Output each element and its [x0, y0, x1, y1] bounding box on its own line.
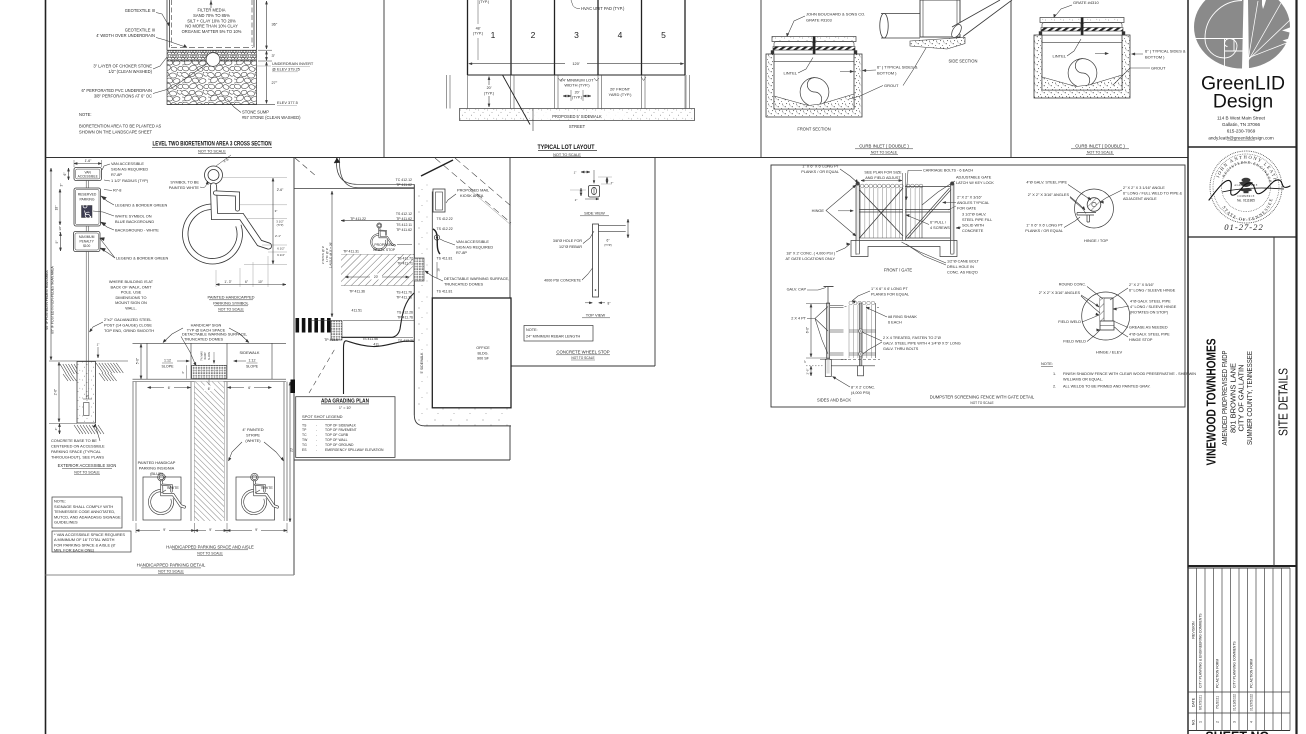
svg-text:TOP OF GROUND: TOP OF GROUND	[325, 443, 354, 447]
hinge elev detail	[1082, 292, 1130, 340]
dashed property diagonals	[295, 158, 316, 176]
svg-text:2" X 2" X 3/16": 2" X 2" X 3/16"	[957, 196, 983, 200]
svg-text:1'- 3": 1'- 3"	[224, 280, 231, 284]
svg-text:FOR GATE: FOR GATE	[957, 207, 977, 211]
lower stall lines left	[310, 320, 331, 322]
svg-text:4"Ø GALV. STEEL PIPE: 4"Ø GALV. STEEL PIPE	[1129, 333, 1170, 337]
18 dim right of walk	[436, 262, 438, 278]
corner blocks	[1039, 32, 1042, 36]
svg-text:01/13/2022: 01/13/2022	[1233, 694, 1237, 711]
svg-text:TYPICAL LOT LAYOUT: TYPICAL LOT LAYOUT	[538, 145, 595, 151]
svg-text:ES: ES	[302, 448, 307, 452]
sidewalk band vertical	[414, 184, 432, 425]
svg-text:ANGLES TYPICAL: ANGLES TYPICAL	[957, 201, 989, 205]
svg-text:7% MAX: 7% MAX	[201, 351, 204, 361]
parking plan edge lines	[133, 378, 287, 380]
svg-text:TENNESSEE CODE ANNOTATED,: TENNESSEE CODE ANNOTATED,	[54, 509, 115, 514]
svg-text:HANDICAPPED PARKING SPACE AND: HANDICAPPED PARKING SPACE AND AISLE	[166, 545, 254, 550]
project box bottom line	[1188, 565, 1297, 567]
svg-text:2: 2	[531, 30, 536, 40]
svg-text:OFFICE: OFFICE	[476, 346, 490, 350]
svg-text:TOP END, GRIND SMOOTH: TOP END, GRIND SMOOTH	[104, 328, 154, 333]
svg-text:NOT TO SCALE: NOT TO SCALE	[1087, 151, 1114, 155]
svg-text:SYMBOL TO BE: SYMBOL TO BE	[170, 180, 199, 185]
svg-text:20' FRONT: 20' FRONT	[610, 87, 631, 92]
svg-text:3": 3"	[181, 371, 185, 374]
svg-text:01-27-22: 01-27-22	[1224, 222, 1264, 232]
svg-text:WILLIAMS OR EQUAL.: WILLIAMS OR EQUAL.	[1063, 378, 1103, 382]
svg-text:GRATE #3103: GRATE #3103	[806, 18, 832, 23]
svg-text:CARRIAGE BOLTS - 6 EACH: CARRIAGE BOLTS - 6 EACH	[923, 169, 973, 173]
parking cross-section	[133, 342, 287, 344]
svg-text:6" PERFORATED PVC UNDERDRAIN: 6" PERFORATED PVC UNDERDRAIN	[81, 88, 152, 93]
svg-text:WIDTH (TYP.): WIDTH (TYP.)	[564, 83, 590, 88]
svg-text:NOT TO SCALE: NOT TO SCALE	[553, 153, 581, 157]
svg-text:R7-8: R7-8	[113, 188, 121, 193]
svg-text:PROPOSED: PROPOSED	[374, 243, 394, 247]
svg-text:NOT TO SCALE: NOT TO SCALE	[74, 471, 100, 475]
svg-text:01/27/2022: 01/27/2022	[1250, 694, 1254, 711]
svg-text:114 B West Main Street: 114 B West Main Street	[1217, 116, 1266, 121]
svg-text:2"x2" GALVANIZED STEEL: 2"x2" GALVANIZED STEEL	[104, 317, 152, 322]
svg-text:5' SIDEWALK: 5' SIDEWALK	[420, 352, 424, 374]
svg-text:1 1/2" RADIUS (TYP): 1 1/2" RADIUS (TYP)	[111, 178, 149, 183]
grate humps	[1042, 23, 1081, 28]
svg-text:6': 6'	[168, 386, 171, 390]
lintel line	[774, 60, 854, 62]
svg-text:4" PAINTED: 4" PAINTED	[242, 427, 263, 432]
svg-text:CONCRETE: CONCRETE	[962, 229, 984, 233]
svg-text:6" PULL /: 6" PULL /	[930, 221, 947, 225]
svg-text:4"Ø GALV. STEEL PIPE: 4"Ø GALV. STEEL PIPE	[1130, 300, 1171, 304]
svg-text:SEE PLAN FOR SIZE: SEE PLAN FOR SIZE	[864, 171, 902, 175]
svg-text:EMERGENCY SPILLWAY ELEVATION: EMERGENCY SPILLWAY ELEVATION	[325, 448, 384, 452]
dome pad at crossing	[331, 321, 342, 341]
svg-text:andy.leath@greenliddesign.com: andy.leath@greenliddesign.com	[1208, 136, 1274, 141]
svg-text:6": 6"	[63, 173, 67, 176]
20ft depth dim	[488, 77, 490, 108]
left dim 36ft	[331, 191, 333, 317]
svg-text:TOP VIEW: TOP VIEW	[586, 313, 606, 318]
svg-text:PAINTED HANDICAP: PAINTED HANDICAP	[138, 460, 176, 465]
svg-text:GROUT: GROUT	[884, 83, 899, 88]
svg-text:TP 411.36: TP 411.36	[349, 290, 365, 294]
symbol right dims	[222, 177, 287, 179]
parking stall lines	[341, 220, 414, 222]
svg-text:TS: TS	[302, 423, 307, 427]
svg-text:WHITE: WHITE	[261, 486, 273, 490]
svg-text:1:12: 1:12	[164, 359, 171, 363]
svg-text:411: 411	[373, 343, 379, 347]
svg-text:ORGANIC MATTER 5% TO 10%: ORGANIC MATTER 5% TO 10%	[182, 29, 242, 34]
svg-text:TP 411.62: TP 411.62	[396, 217, 412, 221]
svg-text:PARKING SYMBOL: PARKING SYMBOL	[213, 301, 249, 306]
svg-text:TC 412.12: TC 412.12	[396, 178, 412, 182]
svg-text:NOTE:: NOTE:	[79, 112, 92, 117]
svg-text:(TYP): (TYP)	[604, 243, 612, 247]
left post footing shaft	[825, 360, 831, 377]
svg-text:8": 8"	[608, 301, 611, 305]
svg-text:$100: $100	[83, 244, 90, 248]
svg-text:CENTERED ON ACCESSIBLE: CENTERED ON ACCESSIBLE	[51, 444, 105, 449]
media box bottom line	[167, 49, 257, 51]
svg-text:(BLUE): (BLUE)	[150, 471, 163, 476]
ADA plan box right edge	[509, 158, 511, 461]
svg-text:NOT TO SCALE: NOT TO SCALE	[970, 401, 993, 405]
sheet left border line	[45, 0, 47, 734]
svg-text:NOT TO SCALE: NOT TO SCALE	[871, 151, 898, 155]
revision table	[1188, 567, 1290, 569]
perforated pvc underdrain circle	[206, 53, 220, 67]
svg-text:STEEL PIPE FILL: STEEL PIPE FILL	[962, 218, 992, 222]
svg-text:6": 6"	[803, 360, 807, 363]
dimension 3in	[266, 51, 268, 61]
svg-text:WHEEL STOP: WHEEL STOP	[373, 248, 396, 252]
svg-text:JOHN BOUCHARD & SONS CO.: JOHN BOUCHARD & SONS CO.	[806, 12, 865, 17]
right gate planks	[906, 184, 910, 188]
svg-text:BLUE BACKGROUND: BLUE BACKGROUND	[115, 219, 154, 224]
svg-text:1.: 1.	[1053, 372, 1056, 376]
svg-text:TS 412.22: TS 412.22	[437, 217, 453, 221]
filter media box walls	[166, 0, 168, 50]
ground line	[49, 360, 128, 362]
svg-text:TP 411.5: TP 411.5	[324, 338, 338, 342]
svg-text:3" LAYER OF CHOKER STONE: 3" LAYER OF CHOKER STONE	[93, 64, 152, 69]
svg-text:CURB INLET ( DOUBLE ): CURB INLET ( DOUBLE )	[859, 144, 909, 149]
svg-text:NOT TO SCALE: NOT TO SCALE	[198, 150, 226, 154]
grade break wavy line	[344, 341, 415, 394]
grate hatched band	[1041, 28, 1123, 32]
street centerline tick	[532, 109, 534, 132]
svg-text:VAN ACCESSIBLE: VAN ACCESSIBLE	[456, 239, 489, 244]
curb top strip	[772, 37, 856, 42]
svg-text:POST (14 GAUGE) CLOSE: POST (14 GAUGE) CLOSE	[104, 323, 152, 328]
svg-text:2.: 2.	[1053, 385, 1056, 389]
choker stone band	[167, 51, 257, 62]
svg-text:REVISION: REVISION	[1192, 621, 1196, 639]
svg-text:1: 1	[1199, 721, 1203, 723]
svg-text:(TYP.): (TYP.)	[479, 0, 489, 4]
sign post	[85, 181, 87, 189]
svg-text:(4,000 PSI): (4,000 PSI)	[851, 391, 871, 395]
grate humps	[774, 42, 813, 47]
aisle hatch	[195, 382, 224, 521]
svg-text:6" ( TYPICAL SIDES &: 6" ( TYPICAL SIDES &	[1145, 49, 1186, 54]
svg-text:ACCESSIBLE: ACCESSIBLE	[78, 175, 98, 179]
svg-text:20': 20'	[487, 86, 492, 90]
svg-text:CURB INLET ( DOUBLE ): CURB INLET ( DOUBLE )	[1075, 144, 1125, 149]
svg-text:3": 3"	[272, 53, 276, 58]
van accessible sign	[74, 168, 102, 181]
svg-text:TP 411.76: TP 411.76	[396, 296, 412, 300]
svg-text:PARKING INSIGNIA: PARKING INSIGNIA	[139, 465, 175, 470]
svg-text:SIDE SECTION: SIDE SECTION	[949, 59, 978, 64]
lower dashed diagonal	[309, 347, 336, 393]
svg-text:FILTER MEDIA: FILTER MEDIA	[198, 8, 226, 13]
svg-text:1" X 6" X 6' LONG PT: 1" X 6" X 6' LONG PT	[802, 165, 839, 169]
svg-text:BLDG.: BLDG.	[477, 351, 488, 355]
svg-text:MOUNT SIGN ON: MOUNT SIGN ON	[115, 300, 147, 305]
svg-text:18: 18	[437, 268, 441, 272]
svg-text:7/1/2021: 7/1/2021	[1216, 696, 1220, 709]
GreenLID Design logo	[1194, 0, 1290, 69]
svg-text:NOTE:: NOTE:	[1041, 361, 1053, 366]
svg-text:2" X 2" X 3/16" ANGLES: 2" X 2" X 3/16" ANGLES	[1039, 291, 1081, 295]
svg-text:Design: Design	[1213, 91, 1273, 113]
svg-text:DIMENSIONS TO: DIMENSIONS TO	[116, 295, 147, 300]
6ft dims	[148, 387, 191, 389]
tall mounting dim	[50, 168, 52, 360]
svg-text:DETACTABLE WARNING SURFACE,: DETACTABLE WARNING SURFACE,	[444, 276, 509, 281]
svg-text:(WHITE): (WHITE)	[245, 438, 261, 443]
svg-text:GALV. THRU BOLTS: GALV. THRU BOLTS	[883, 347, 919, 351]
svg-text:6/17/2021: 6/17/2021	[1199, 695, 1203, 710]
svg-text:2" X 2" X 3/16" ANGLES: 2" X 2" X 3/16" ANGLES	[1028, 193, 1070, 197]
top cut dimension arrow	[210, 0, 212, 8]
svg-text:3": 3"	[275, 209, 278, 213]
svg-text:FIELD WELD: FIELD WELD	[1058, 320, 1081, 324]
svg-text:CONC. AS REQ'D: CONC. AS REQ'D	[947, 271, 978, 275]
svg-text:1" X 6" X 6' LONG PT: 1" X 6" X 6' LONG PT	[1026, 224, 1063, 228]
svg-text:SUMNER COUNTY, TENNESSEE: SUMNER COUNTY, TENNESSEE	[1245, 351, 1254, 445]
svg-text:10": 10"	[258, 280, 263, 284]
gap dashes	[845, 306, 849, 308]
pipe circle hatched	[1087, 198, 1101, 212]
svg-text:VINEWOOD TOWNHOMES: VINEWOOD TOWNHOMES	[1204, 338, 1219, 465]
grate seat strip	[773, 50, 855, 54]
svg-text:-: -	[316, 428, 317, 432]
svg-text:MIN. FOR EACH ONE): MIN. FOR EACH ONE)	[54, 548, 95, 553]
divider bioretention/lot layout	[383, 0, 385, 158]
svg-text:TP 411.62: TP 411.62	[396, 228, 412, 232]
post into concrete	[85, 361, 87, 399]
svg-text:HINGE STOP: HINGE STOP	[1129, 338, 1153, 342]
svg-text:TP 411.76: TP 411.76	[397, 316, 413, 320]
hinge arrow zigzag	[826, 185, 856, 236]
svg-text:SPOT SHOT LEGEND: SPOT SHOT LEGEND	[302, 414, 343, 419]
5ft sidewalk rotated label	[418, 350, 427, 378]
svg-text:KIOSK AREA: KIOSK AREA	[460, 193, 484, 198]
svg-text:SLOPE: SLOPE	[246, 365, 259, 369]
hinge top detail	[1075, 189, 1114, 228]
stamp box bottom line	[1188, 236, 1297, 238]
svg-text:1 1/2": 1 1/2"	[58, 226, 62, 233]
svg-text:FINISH SHADOW FENCE WITH CLEAR: FINISH SHADOW FENCE WITH CLEAR WOOD PRES…	[1063, 372, 1196, 376]
svg-text:6" LONG / SLEEVE HINGE: 6" LONG / SLEEVE HINGE	[1129, 289, 1176, 293]
svg-text:WHITE SYMBOL ON: WHITE SYMBOL ON	[115, 214, 152, 219]
svg-text:TS 412.26: TS 412.26	[397, 311, 413, 315]
svg-text:ADJUSTABLE GATE: ADJUSTABLE GATE	[956, 176, 992, 180]
route curve B	[341, 293, 414, 337]
svg-text:SIDES AND BACK: SIDES AND BACK	[817, 398, 851, 403]
svg-text:36": 36"	[272, 22, 278, 27]
svg-text:CITY PLANNING COMMENTS: CITY PLANNING COMMENTS	[1233, 641, 1237, 688]
blue symbol square	[82, 206, 93, 218]
svg-text:3: 3	[1233, 721, 1237, 723]
curb return curve	[337, 158, 415, 184]
svg-text:R7-8P: R7-8P	[111, 172, 122, 177]
right dimension line 36in	[266, 1, 268, 49]
svg-text:WHITE: WHITE	[167, 486, 179, 490]
svg-text:PLANKS / OR EQUAL: PLANKS / OR EQUAL	[1025, 229, 1063, 233]
svg-text:411.51: 411.51	[352, 309, 362, 313]
svg-text:SIGN AS REQUIRED: SIGN AS REQUIRED	[456, 245, 493, 250]
dashed plank top right	[877, 307, 881, 309]
svg-text:STREET: STREET	[569, 124, 586, 129]
svg-text:3 1/2"Ø GALV.: 3 1/2"Ø GALV.	[962, 213, 986, 217]
svg-text:THROUGHOUT), SEE PLANS: THROUGHOUT), SEE PLANS	[51, 455, 104, 460]
svg-text:SLOPE: SLOPE	[208, 352, 211, 361]
handicap parking box right edge	[293, 158, 295, 576]
maximum penalty sign	[74, 232, 101, 252]
svg-text:PARKING: PARKING	[79, 198, 94, 202]
gate center stiles and cane bolts	[902, 173, 904, 241]
svg-text:6" LONG / FULL WELD TO PIPE &: 6" LONG / FULL WELD TO PIPE &	[1123, 192, 1183, 196]
mail kiosk	[433, 189, 445, 212]
plan title + legend box	[296, 397, 395, 458]
wheel stop box bottom edge	[510, 365, 655, 367]
svg-text:TS 411.72: TS 411.72	[397, 257, 413, 261]
svg-text:FIELD WELD: FIELD WELD	[1063, 340, 1086, 344]
curb lines right	[599, 225, 626, 227]
svg-text:TP 411.71: TP 411.71	[397, 262, 413, 266]
svg-text:#8 RING SHANK: #8 RING SHANK	[888, 315, 917, 319]
svg-text:1 AISLE @ 9' = 36': 1 AISLE @ 9' = 36'	[329, 242, 333, 268]
svg-text:NOTE:: NOTE:	[526, 328, 538, 332]
van sign circle	[434, 235, 439, 240]
svg-text:24" MINIMUM REBAR LENGTH: 24" MINIMUM REBAR LENGTH	[526, 334, 581, 338]
svg-text:PROPOSED MAIL: PROPOSED MAIL	[457, 188, 490, 193]
svg-text:LEGEND & BORDER GREEN: LEGEND & BORDER GREEN	[115, 203, 168, 208]
svg-text:CITY PLANNING & ENGINEERING CO: CITY PLANNING & ENGINEERING COMMENTS	[1199, 613, 1203, 688]
svg-text:AND FIELD ADJUST: AND FIELD ADJUST	[865, 176, 901, 180]
grate hatched band	[773, 47, 855, 51]
svg-text:TS 412.26: TS 412.26	[398, 339, 414, 343]
svg-text:18": 18"	[55, 206, 59, 211]
svg-text:ADJACENT ANGLE: ADJACENT ANGLE	[1123, 197, 1157, 201]
svg-text:BACKGROUND - WHITE: BACKGROUND - WHITE	[115, 228, 159, 233]
svg-text:4: 4	[618, 30, 623, 40]
svg-text:WHERE BUILDING IS AT: WHERE BUILDING IS AT	[109, 279, 154, 284]
zebra crossing bars	[296, 318, 300, 333]
elev 377.5 label	[167, 104, 275, 106]
svg-text:GROUT: GROUT	[1151, 66, 1166, 71]
svg-text:LEGEND & BORDER GREEN: LEGEND & BORDER GREEN	[116, 256, 169, 261]
svg-text:PAINTED WHITE: PAINTED WHITE	[169, 185, 200, 190]
svg-text:9": 9"	[55, 241, 59, 244]
svg-text:615-230-7069: 615-230-7069	[1227, 129, 1256, 134]
svg-text:WALL.: WALL.	[125, 306, 137, 311]
title block right border	[1295, 0, 1297, 734]
svg-text:TG: TG	[302, 443, 307, 447]
bottom 9ft dims	[135, 523, 137, 533]
svg-text:5'-0": 5'-0"	[135, 358, 139, 364]
svg-text:SOLID WITH: SOLID WITH	[962, 224, 984, 228]
back panel planks	[849, 301, 853, 305]
svg-text:4000 PSI CONCRETE: 4000 PSI CONCRETE	[544, 279, 581, 283]
reserved parking sign	[74, 188, 101, 226]
svg-text:NOT TO SCALE: NOT TO SCALE	[571, 356, 594, 360]
svg-text:1" = 10': 1" = 10'	[339, 406, 352, 410]
svg-text:HINGE: HINGE	[812, 208, 825, 213]
galv cap post	[827, 287, 829, 303]
svg-text:SITE DETAILS: SITE DETAILS	[1276, 368, 1291, 436]
svg-text:1:12: 1:12	[249, 359, 256, 363]
svg-text:80" IF POSTED IN NON-PEDESTRIA: 80" IF POSTED IN NON-PEDESTRIAN AREA	[51, 265, 55, 333]
svg-text:TOP OF CURB: TOP OF CURB	[325, 433, 349, 437]
svg-text:PENALTY: PENALTY	[80, 240, 95, 244]
sidewalk band	[460, 109, 695, 121]
rails left	[830, 305, 844, 307]
svg-text:6': 6'	[248, 386, 251, 390]
svg-text:AT GATE LOCATIONS ONLY: AT GATE LOCATIONS ONLY	[786, 257, 836, 261]
svg-text:LATCH W/ KEY LOCK: LATCH W/ KEY LOCK	[956, 181, 994, 185]
svg-text:6 1/4": 6 1/4"	[277, 253, 284, 257]
svg-text:900 SF: 900 SF	[477, 357, 490, 361]
svg-text:EXTERIOR ACCESSIBLE SIGN: EXTERIOR ACCESSIBLE SIGN	[58, 463, 117, 468]
side section pipes	[881, 13, 920, 15]
office building	[432, 298, 511, 408]
svg-text:DRILL HOLE IN: DRILL HOLE IN	[947, 265, 974, 269]
svg-text:2'-6": 2'-6"	[277, 188, 284, 192]
lintel line	[1042, 41, 1122, 43]
svg-text:BOTTOM ): BOTTOM )	[1145, 55, 1165, 60]
svg-text:-: -	[316, 423, 317, 427]
120ft dimension	[469, 63, 684, 65]
svg-text:TS 411.81: TS 411.81	[437, 290, 453, 294]
site details column divider	[1273, 237, 1275, 566]
svg-text:1: 1	[491, 30, 496, 40]
svg-text:8" X 2' CONC.: 8" X 2' CONC.	[851, 386, 875, 390]
svg-text:6": 6"	[607, 239, 610, 243]
svg-text:(ROTATES ON STOP): (ROTATES ON STOP)	[1130, 311, 1169, 315]
svg-text:HINGE / TOP: HINGE / TOP	[1084, 238, 1108, 243]
svg-text:MAXIMUM: MAXIMUM	[79, 235, 95, 239]
svg-text:Gallatin, TN 37066: Gallatin, TN 37066	[1222, 122, 1261, 127]
svg-text:ADA GRADING PLAN: ADA GRADING PLAN	[321, 398, 369, 404]
right post footing shaft	[858, 366, 864, 376]
grate seat strip	[1041, 31, 1123, 35]
rebar note box	[524, 326, 593, 342]
svg-text:2 X 4 PT: 2 X 4 PT	[791, 317, 806, 321]
svg-text:NOT TO SCALE: NOT TO SCALE	[158, 570, 184, 574]
svg-text:6': 6'	[208, 387, 211, 391]
inlet concrete walls	[766, 54, 862, 117]
svg-text:NOT TO SCALE: NOT TO SCALE	[197, 552, 223, 556]
svg-text:#57 STONE (CLEAN WASHED): #57 STONE (CLEAN WASHED)	[242, 115, 301, 120]
aisle 20ft arrow	[345, 276, 409, 278]
gate rails	[860, 209, 904, 211]
svg-text:TS 412.11: TS 412.11	[396, 223, 412, 227]
svg-text:(TYP): (TYP)	[277, 223, 284, 227]
svg-text:PC ACTION FORM: PC ACTION FORM	[1250, 659, 1254, 688]
stone sump layer	[167, 61, 257, 105]
svg-text:3": 3"	[60, 184, 64, 187]
svg-text:3 1/2": 3 1/2"	[276, 220, 283, 224]
svg-text:9': 9'	[209, 528, 212, 532]
svg-text:TOP OF WALL: TOP OF WALL	[325, 438, 348, 442]
1in reveal dim	[97, 347, 99, 358]
soil hatch right	[96, 363, 103, 373]
handicap parking box bottom edge	[46, 574, 295, 576]
svg-text:BACK OF WALK, OMIT: BACK OF WALK, OMIT	[111, 284, 153, 289]
right gate frame	[905, 186, 950, 188]
svg-text:7": 7"	[611, 181, 614, 185]
svg-text:HANDICAPPED PARKING DETAIL: HANDICAPPED PARKING DETAIL	[137, 563, 206, 568]
divider lot layout/curb inlet	[760, 0, 762, 158]
svg-text:GEOTEXTILE III: GEOTEXTILE III	[125, 8, 155, 13]
svg-text:SIGNAGE SHALL COMPLY WITH: SIGNAGE SHALL COMPLY WITH	[54, 504, 113, 509]
